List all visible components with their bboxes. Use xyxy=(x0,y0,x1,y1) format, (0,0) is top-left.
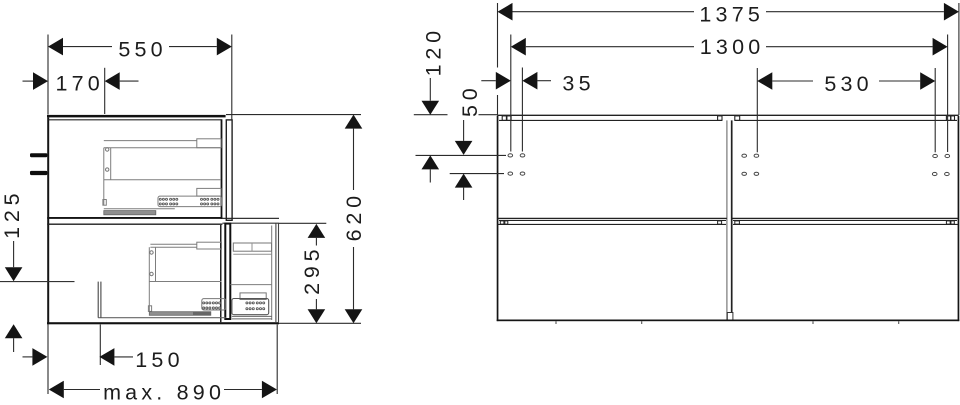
svg-text:max. 890: max. 890 xyxy=(103,380,225,404)
svg-text:550: 550 xyxy=(118,37,166,61)
svg-text:120: 120 xyxy=(421,26,445,76)
svg-text:620: 620 xyxy=(342,191,366,241)
svg-text:295: 295 xyxy=(300,245,324,295)
svg-text:170: 170 xyxy=(55,72,103,96)
svg-text:35: 35 xyxy=(562,71,594,95)
svg-text:1300: 1300 xyxy=(700,35,765,59)
svg-text:150: 150 xyxy=(135,348,183,372)
svg-text:1375: 1375 xyxy=(699,3,764,27)
svg-text:50: 50 xyxy=(458,83,482,117)
svg-text:125: 125 xyxy=(0,189,24,239)
svg-text:530: 530 xyxy=(824,72,872,96)
